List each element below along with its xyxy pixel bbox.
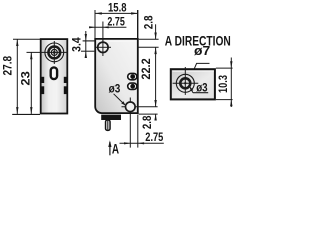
dimension 3.4 xyxy=(69,31,95,58)
svg-text:22.2: 22.2 xyxy=(139,58,153,79)
dimension 27.8 xyxy=(0,39,40,114)
dimension 2.8 top xyxy=(137,10,159,47)
svg-text:2.75: 2.75 xyxy=(145,130,163,144)
front view body xyxy=(95,39,138,113)
cable stub xyxy=(106,120,111,130)
svg-text:27.8: 27.8 xyxy=(0,56,14,76)
label ø3 front xyxy=(109,82,126,106)
svg-text:23: 23 xyxy=(19,71,33,86)
dimension 2.75 top xyxy=(89,14,126,41)
side view body xyxy=(41,39,68,113)
LED indicator 1 xyxy=(128,73,137,79)
side view mounting slot right bottom xyxy=(65,87,67,93)
svg-text:2.8: 2.8 xyxy=(140,116,154,130)
svg-text:ø7: ø7 xyxy=(194,43,210,58)
svg-text:ø3: ø3 xyxy=(109,82,121,96)
side view mounting slot left bottom xyxy=(42,87,44,93)
svg-text:A: A xyxy=(112,142,119,157)
cable gland flange xyxy=(101,115,121,120)
svg-text:2.75: 2.75 xyxy=(107,14,125,28)
svg-text:2.8: 2.8 xyxy=(142,15,156,29)
dimension 22.2 xyxy=(139,47,157,107)
side view sensing face target xyxy=(27,41,69,64)
LED indicator 2 xyxy=(128,83,137,89)
dimension 15.8 xyxy=(95,1,138,39)
front mounting hole top (ø3) xyxy=(96,39,111,56)
side view mounting slot left top xyxy=(42,78,44,83)
A direction view body xyxy=(171,69,215,99)
view arrow A xyxy=(108,140,119,156)
label ø3 A view xyxy=(190,80,208,94)
svg-text:10.3: 10.3 xyxy=(216,75,230,93)
side view oval hole xyxy=(51,67,57,79)
svg-text:15.8: 15.8 xyxy=(108,1,127,15)
front mounting hole bottom (ø3) xyxy=(122,98,158,148)
dimension 10.3 xyxy=(216,58,233,108)
dimension 23 xyxy=(19,52,33,114)
dimension 2.75 bottom xyxy=(120,115,164,148)
svg-text:3.4: 3.4 xyxy=(69,37,83,52)
dimension 2.8 bottom xyxy=(139,114,158,129)
label ø7 xyxy=(191,43,211,77)
side view mounting slot right top xyxy=(65,78,67,83)
A direction target xyxy=(173,67,199,95)
